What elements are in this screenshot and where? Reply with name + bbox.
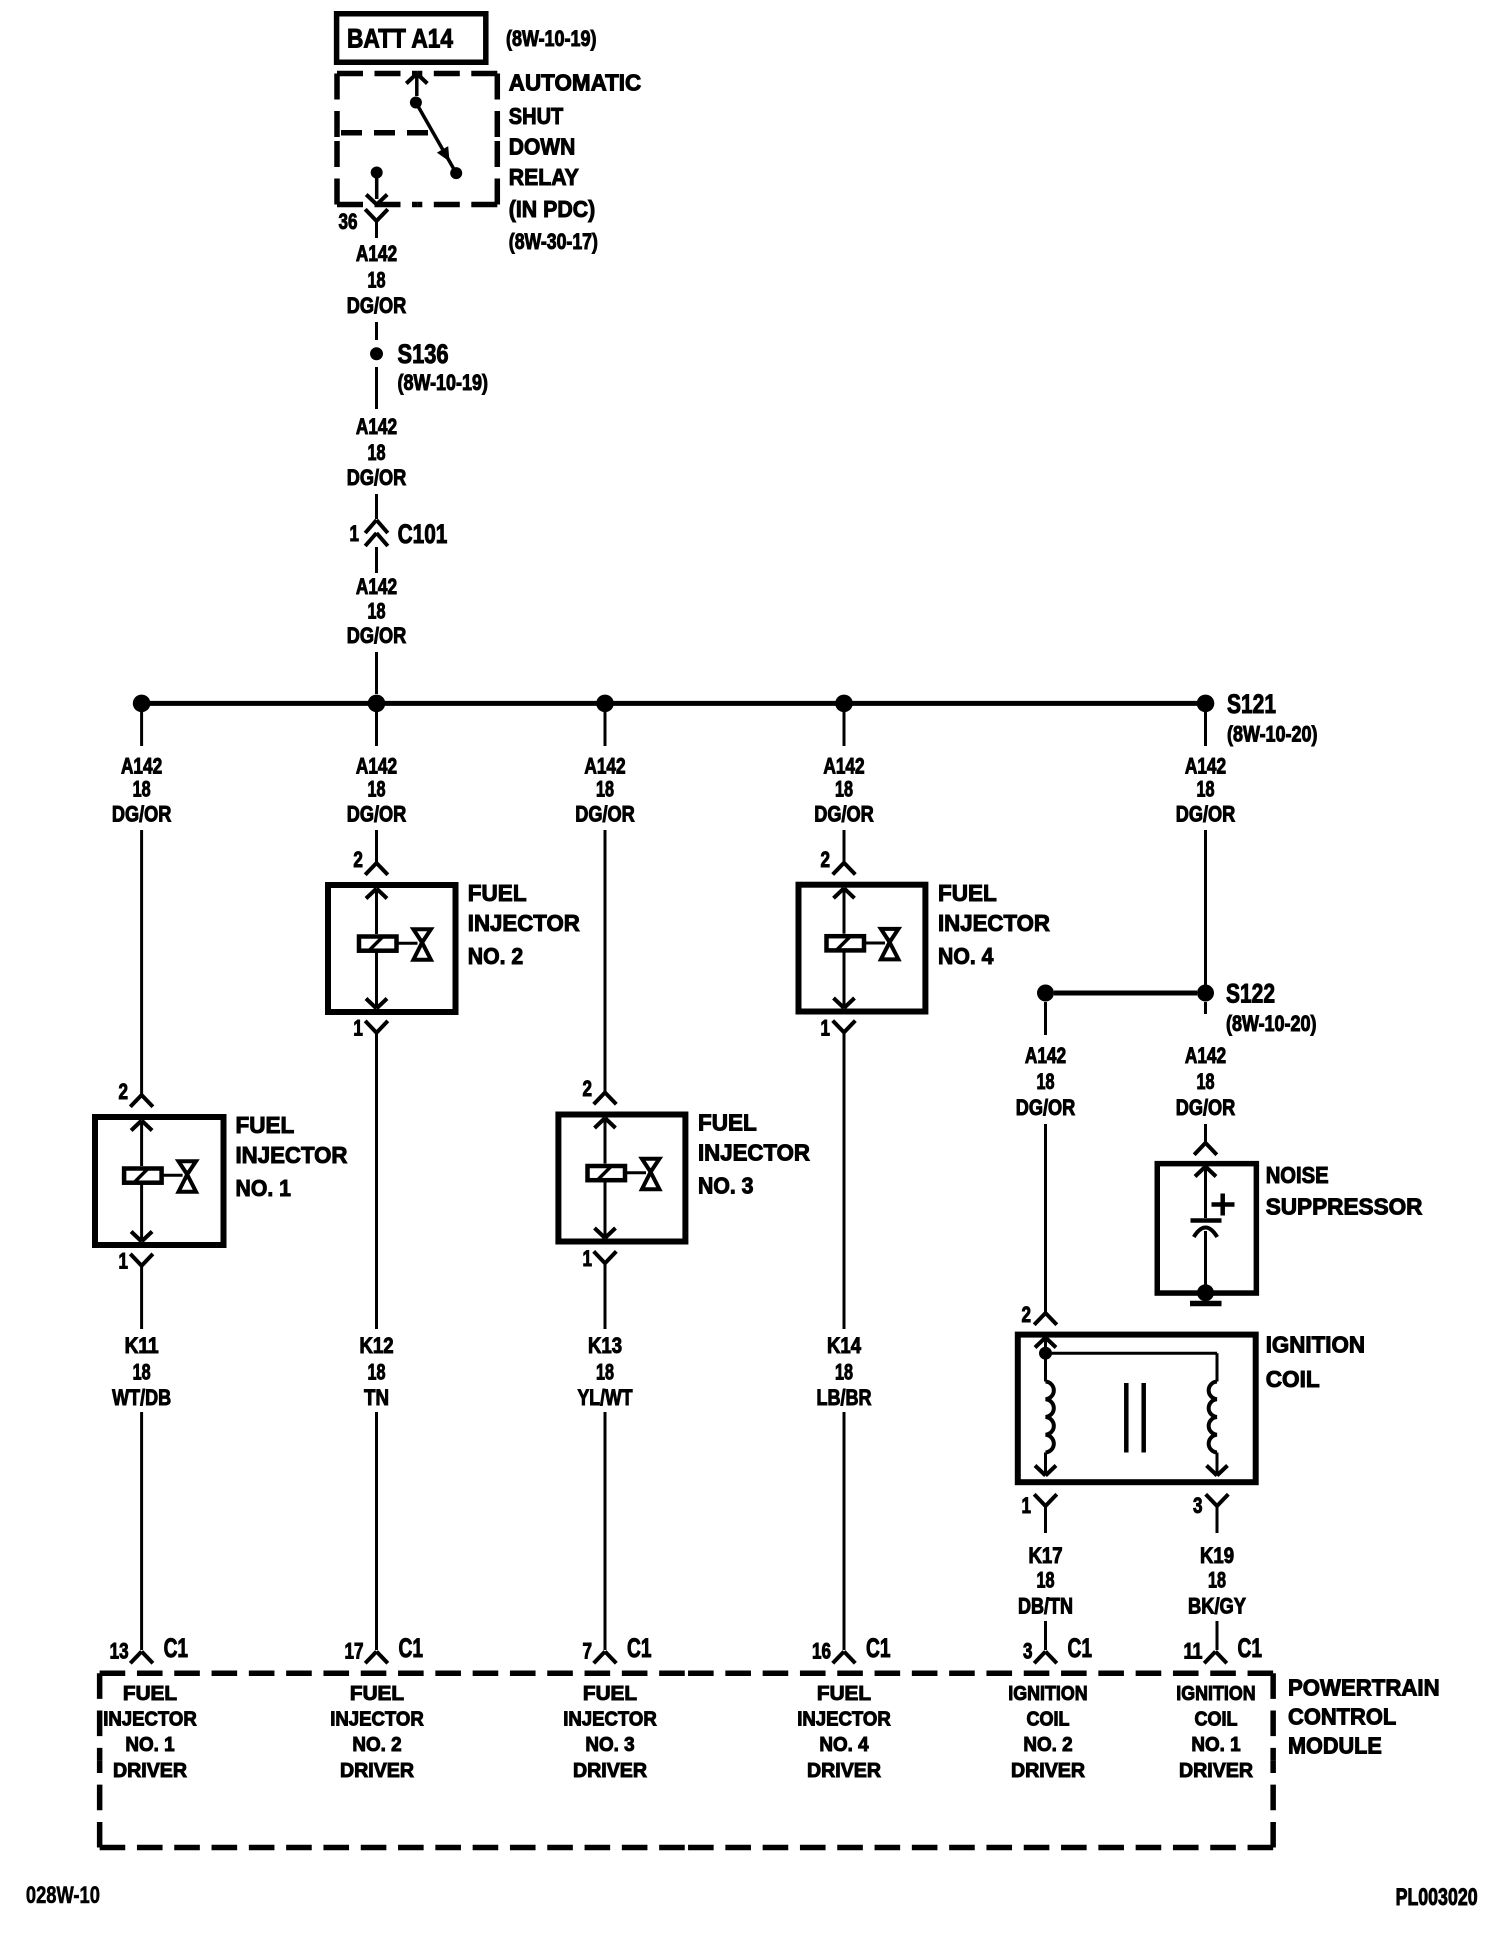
- svg-text:SUPPRESSOR: SUPPRESSOR: [1266, 1194, 1423, 1220]
- svg-text:S136: S136: [398, 339, 449, 369]
- svg-text:(8W-10-20): (8W-10-20): [1226, 1011, 1317, 1036]
- pin 2 connector fork above fuel injector no. 1: [119, 830, 153, 1107]
- svg-text:3: 3: [1193, 1493, 1203, 1518]
- svg-text:18: 18: [596, 777, 614, 802]
- svg-text:A142: A142: [356, 574, 397, 599]
- splice node S122: [1197, 979, 1317, 1037]
- svg-text:FUEL: FUEL: [583, 1683, 637, 1705]
- svg-text:TN: TN: [364, 1385, 389, 1410]
- svg-text:A142: A142: [121, 754, 162, 779]
- svg-text:18: 18: [835, 777, 853, 802]
- wire segment K12 down to PCM connector, column 2: [375, 1412, 378, 1650]
- svg-text:K19: K19: [1200, 1543, 1234, 1568]
- svg-text:17: 17: [345, 1639, 364, 1664]
- pin 36 connector fork below relay: [339, 209, 388, 238]
- wire stub below bus, column 3: [604, 712, 607, 746]
- connector fork above noise suppressor: [1194, 1143, 1217, 1155]
- footer drawing number PL003020: [1396, 1884, 1478, 1911]
- svg-text:C1: C1: [627, 1633, 652, 1663]
- wire segment down to splice S136: [375, 322, 378, 340]
- svg-text:NOISE: NOISE: [1266, 1162, 1329, 1188]
- svg-text:C1: C1: [399, 1633, 424, 1663]
- svg-text:DB/TN: DB/TN: [1018, 1594, 1073, 1619]
- connector C1 pin 17: [345, 1633, 424, 1664]
- relay switch contact (movable arm with arrows): [406, 74, 462, 180]
- connector C1 pin 16: [812, 1633, 891, 1664]
- svg-text:18: 18: [1197, 777, 1215, 802]
- svg-text:DG/OR: DG/OR: [1176, 801, 1236, 826]
- wire stub below S122 right branch: [1204, 1002, 1207, 1014]
- svg-text:2: 2: [821, 847, 831, 872]
- svg-text:2: 2: [119, 1079, 129, 1104]
- pin 1 connector fork below ignition coil: [1022, 1493, 1057, 1533]
- svg-text:2: 2: [1022, 1302, 1032, 1327]
- svg-text:18: 18: [1037, 1568, 1055, 1593]
- svg-text:18: 18: [368, 599, 386, 624]
- svg-text:16: 16: [812, 1639, 831, 1664]
- svg-text:C1: C1: [866, 1633, 891, 1663]
- junction dot S122 left branch: [1037, 985, 1054, 1002]
- svg-text:DG/OR: DG/OR: [347, 801, 407, 826]
- svg-text:S121: S121: [1227, 689, 1276, 719]
- wire label A142 18 DG/OR (relay to S136): [347, 241, 407, 318]
- splice node S136: [370, 339, 488, 395]
- svg-text:MODULE: MODULE: [1288, 1732, 1382, 1758]
- wire segment K11 down to PCM connector, column 1: [140, 1412, 143, 1650]
- svg-text:K11: K11: [125, 1333, 159, 1358]
- svg-text:COIL: COIL: [1195, 1709, 1238, 1731]
- wire segment S121 to S122 (column 6): [1204, 830, 1207, 985]
- svg-text:POWERTRAIN: POWERTRAIN: [1288, 1675, 1440, 1701]
- svg-text:NO. 2: NO. 2: [468, 943, 523, 969]
- svg-text:DRIVER: DRIVER: [1179, 1760, 1254, 1782]
- svg-text:NO. 1: NO. 1: [236, 1175, 292, 1201]
- svg-text:DRIVER: DRIVER: [113, 1760, 188, 1782]
- svg-text:INJECTOR: INJECTOR: [330, 1709, 424, 1731]
- svg-text:A142: A142: [356, 754, 397, 779]
- relay Automatic Shut Down Relay (dashed box, in PDC): [337, 74, 497, 205]
- svg-text:CONTROL: CONTROL: [1288, 1704, 1396, 1730]
- wire label K17 18 DB/TN: [1018, 1543, 1073, 1619]
- svg-text:18: 18: [368, 777, 386, 802]
- svg-text:18: 18: [596, 1360, 614, 1385]
- svg-text:FUEL: FUEL: [236, 1112, 295, 1138]
- svg-text:DG/OR: DG/OR: [814, 801, 874, 826]
- wire segment K19 down to PCM: [1216, 1621, 1219, 1650]
- svg-text:INJECTOR: INJECTOR: [797, 1709, 891, 1731]
- wire label A142 18 DG/OR (S136 to C101): [347, 414, 407, 490]
- wire label K14 18 LB/BR column 4: [817, 1333, 872, 1410]
- wire segment below C101: [375, 547, 378, 573]
- svg-text:S122: S122: [1226, 979, 1275, 1009]
- svg-text:NO. 4: NO. 4: [819, 1734, 869, 1756]
- pin 2 connector fork above fuel injector no. 3: [583, 830, 617, 1104]
- svg-text:18: 18: [368, 268, 386, 293]
- svg-text:1: 1: [350, 521, 360, 546]
- svg-text:NO. 2: NO. 2: [1023, 1734, 1072, 1756]
- wire label A142 18 DG/OR column 6: [1176, 754, 1236, 827]
- svg-text:INJECTOR: INJECTOR: [468, 910, 580, 936]
- wire stub below bus, column 4: [843, 712, 846, 746]
- PCM driver label FUEL INJECTOR NO. 4 DRIVER: [797, 1683, 891, 1782]
- svg-text:INJECTOR: INJECTOR: [938, 910, 1050, 936]
- svg-text:IGNITION: IGNITION: [1176, 1683, 1255, 1705]
- svg-text:A142: A142: [823, 754, 864, 779]
- junction dot column 2: [368, 695, 386, 713]
- connector C1 pin 13: [110, 1633, 189, 1664]
- battery feed box BATT A14: [337, 14, 597, 63]
- pin 2 connector fork above fuel injector no. 4: [821, 830, 856, 875]
- svg-text:1: 1: [353, 1016, 363, 1041]
- splice bus wire S121 (horizontal): [139, 701, 1208, 706]
- connector C1 pin 7: [583, 1633, 652, 1664]
- wire segment down to S121 bus: [375, 652, 378, 694]
- svg-text:C1: C1: [1238, 1633, 1263, 1663]
- wire segment K13 down to PCM connector, column 3: [604, 1412, 607, 1650]
- svg-text:18: 18: [1037, 1069, 1055, 1094]
- svg-text:36: 36: [339, 209, 358, 234]
- PCM driver label IGNITION COIL NO. 2 DRIVER: [1008, 1683, 1087, 1782]
- svg-text:18: 18: [368, 440, 386, 465]
- svg-text:INJECTOR: INJECTOR: [236, 1142, 348, 1168]
- wire label K11 18 WT/DB column 1: [112, 1333, 171, 1410]
- splice wire S122 horizontal: [1054, 991, 1197, 996]
- powertrain control module (dashed box): [100, 1673, 1440, 1847]
- svg-text:(8W-10-19): (8W-10-19): [398, 370, 489, 395]
- svg-text:FUEL: FUEL: [468, 880, 527, 906]
- svg-text:DG/OR: DG/OR: [112, 801, 172, 826]
- svg-text:1: 1: [1022, 1493, 1032, 1518]
- svg-text:FUEL: FUEL: [350, 1683, 404, 1705]
- noise suppressor (capacitor) box: [1157, 1162, 1423, 1293]
- wire segment down to ignition coil: [1044, 1124, 1047, 1313]
- svg-text:K12: K12: [360, 1333, 394, 1358]
- svg-text:FUEL: FUEL: [123, 1683, 177, 1705]
- junction dot column 4: [835, 695, 853, 713]
- svg-text:DG/OR: DG/OR: [347, 293, 407, 318]
- svg-text:C101: C101: [398, 519, 448, 549]
- svg-text:DG/OR: DG/OR: [1176, 1095, 1236, 1120]
- svg-text:NO. 4: NO. 4: [938, 943, 994, 969]
- svg-text:INJECTOR: INJECTOR: [563, 1709, 657, 1731]
- svg-text:(8W-10-19): (8W-10-19): [506, 26, 597, 51]
- junction dot column 3: [596, 695, 614, 713]
- wire segment below S136: [375, 367, 378, 409]
- svg-text:DRIVER: DRIVER: [340, 1760, 415, 1782]
- wire label A142 18 DG/OR column 3: [575, 754, 635, 827]
- svg-text:(8W-10-20): (8W-10-20): [1227, 722, 1318, 747]
- connector C1 pin 3: [1023, 1633, 1092, 1664]
- svg-text:IGNITION: IGNITION: [1266, 1332, 1365, 1358]
- svg-text:18: 18: [1208, 1568, 1226, 1593]
- svg-text:DG/OR: DG/OR: [575, 801, 635, 826]
- svg-text:FUEL: FUEL: [817, 1683, 871, 1705]
- svg-text:WT/DB: WT/DB: [112, 1385, 171, 1410]
- svg-text:7: 7: [583, 1639, 593, 1664]
- fuel injector NO. 2: [328, 880, 580, 1012]
- svg-text:2: 2: [583, 1076, 593, 1101]
- svg-text:INJECTOR: INJECTOR: [103, 1709, 197, 1731]
- svg-text:NO. 3: NO. 3: [585, 1734, 634, 1756]
- ground symbol at noise suppressor: [1190, 1284, 1222, 1303]
- wire label A142 18 DG/OR (S122 to noise suppressor): [1176, 1043, 1236, 1120]
- svg-text:K14: K14: [827, 1333, 862, 1358]
- svg-text:18: 18: [1197, 1069, 1215, 1094]
- svg-text:FUEL: FUEL: [938, 880, 997, 906]
- svg-text:A142: A142: [1185, 1043, 1226, 1068]
- svg-text:NO. 3: NO. 3: [698, 1173, 753, 1199]
- svg-text:1: 1: [119, 1249, 129, 1274]
- PCM driver label FUEL INJECTOR NO. 3 DRIVER: [563, 1683, 657, 1782]
- svg-text:A142: A142: [1025, 1043, 1066, 1068]
- wire label A142 18 DG/OR column 2: [347, 754, 407, 827]
- svg-text:FUEL: FUEL: [698, 1110, 757, 1136]
- PCM driver label IGNITION COIL NO. 1 DRIVER: [1176, 1683, 1255, 1782]
- svg-text:DG/OR: DG/OR: [1016, 1095, 1076, 1120]
- svg-text:DOWN: DOWN: [509, 134, 576, 160]
- fuel injector NO. 1: [95, 1112, 348, 1245]
- PCM driver label FUEL INJECTOR NO. 2 DRIVER: [330, 1683, 424, 1782]
- svg-text:C1: C1: [164, 1633, 189, 1663]
- wire segment K17 down to PCM: [1044, 1621, 1047, 1650]
- svg-text:YL/WT: YL/WT: [578, 1385, 633, 1410]
- svg-text:SHUT: SHUT: [509, 103, 564, 129]
- svg-text:COIL: COIL: [1266, 1366, 1320, 1392]
- PCM driver label FUEL INJECTOR NO. 1 DRIVER: [103, 1683, 197, 1782]
- ignition coil: [1018, 1332, 1365, 1483]
- relay name label AUTOMATIC SHUT DOWN RELAY (IN PDC) (8W-30-17): [509, 70, 641, 254]
- connector C1 pin 11: [1184, 1633, 1263, 1664]
- svg-text:IGNITION: IGNITION: [1008, 1683, 1087, 1705]
- svg-text:AUTOMATIC: AUTOMATIC: [509, 70, 641, 96]
- wire label K12 18 TN column 2: [360, 1333, 394, 1410]
- pin 3 connector fork below ignition coil: [1193, 1493, 1228, 1533]
- wire segment K14 down to PCM connector, column 4: [843, 1412, 846, 1650]
- wire stub below S122 left branch: [1044, 1002, 1047, 1035]
- svg-text:1: 1: [821, 1016, 831, 1041]
- svg-text:2: 2: [353, 847, 363, 872]
- wire label K13 18 YL/WT column 3: [578, 1333, 633, 1410]
- svg-text:13: 13: [110, 1639, 129, 1664]
- relay coil-side terminal with arrow to pin 36: [366, 167, 387, 205]
- pin 1 connector fork below fuel injector no. 1: [119, 1249, 153, 1330]
- wire label K19 18 BK/GY: [1188, 1543, 1246, 1619]
- wire label A142 18 DG/OR column 1: [112, 754, 172, 827]
- svg-text:C1: C1: [1068, 1633, 1093, 1663]
- svg-text:18: 18: [133, 777, 151, 802]
- wire stub below bus, column 1: [140, 712, 143, 746]
- pin 2 connector fork above ignition coil: [1022, 1302, 1057, 1327]
- wire stub below bus, column 6: [1204, 712, 1207, 746]
- svg-text:DRIVER: DRIVER: [1011, 1760, 1086, 1782]
- pin 1 connector fork below fuel injector no. 3: [583, 1246, 617, 1329]
- svg-text:(8W-30-17): (8W-30-17): [509, 229, 598, 254]
- svg-text:3: 3: [1023, 1639, 1033, 1664]
- pin 1 connector fork below fuel injector no. 4: [821, 1016, 856, 1330]
- junction dot column 1: [133, 695, 151, 713]
- svg-text:18: 18: [835, 1360, 853, 1385]
- wire segment down to noise suppressor: [1204, 1124, 1207, 1143]
- wire label A142 18 DG/OR (S122 to ignition coil): [1016, 1043, 1076, 1120]
- svg-text:1: 1: [583, 1246, 593, 1271]
- svg-text:DRIVER: DRIVER: [807, 1760, 882, 1782]
- svg-text:LB/BR: LB/BR: [817, 1385, 872, 1410]
- wire segment down to connector C101: [375, 494, 378, 519]
- svg-text:(IN PDC): (IN PDC): [509, 196, 595, 222]
- svg-text:K13: K13: [588, 1333, 622, 1358]
- svg-text:PL003020: PL003020: [1396, 1884, 1478, 1911]
- svg-text:NO. 1: NO. 1: [1191, 1734, 1240, 1756]
- wire label A142 18 DG/OR column 4: [814, 754, 874, 827]
- splice node S121: [1197, 689, 1318, 747]
- wire stub below bus, column 2: [375, 712, 378, 746]
- svg-text:028W-10: 028W-10: [26, 1882, 100, 1909]
- svg-text:18: 18: [368, 1360, 386, 1385]
- svg-text:BK/GY: BK/GY: [1188, 1594, 1246, 1619]
- svg-text:A142: A142: [1185, 754, 1226, 779]
- svg-text:INJECTOR: INJECTOR: [698, 1140, 810, 1166]
- fuel injector NO. 3: [558, 1110, 810, 1242]
- svg-text:DRIVER: DRIVER: [573, 1760, 648, 1782]
- svg-text:DG/OR: DG/OR: [347, 465, 407, 490]
- svg-text:A142: A142: [584, 754, 625, 779]
- svg-text:NO. 2: NO. 2: [352, 1734, 401, 1756]
- svg-text:K17: K17: [1029, 1543, 1063, 1568]
- pin 2 connector fork above fuel injector no. 2: [353, 830, 387, 875]
- svg-text:NO. 1: NO. 1: [125, 1734, 174, 1756]
- connector C101 pin 1 (inline double chevron): [350, 519, 448, 549]
- svg-text:DG/OR: DG/OR: [347, 623, 407, 648]
- svg-text:A142: A142: [356, 241, 397, 266]
- fuel injector NO. 4: [799, 880, 1051, 1012]
- footer sheet number 028W-10: [26, 1882, 100, 1909]
- svg-text:A142: A142: [356, 414, 397, 439]
- svg-text:BATT A14: BATT A14: [347, 24, 453, 54]
- wire label A142 18 DG/OR (C101 to bus): [347, 574, 407, 648]
- pin 1 connector fork below fuel injector no. 2: [353, 1016, 387, 1330]
- svg-text:COIL: COIL: [1027, 1709, 1070, 1731]
- svg-text:18: 18: [133, 1360, 151, 1385]
- svg-text:11: 11: [1184, 1639, 1203, 1664]
- svg-text:RELAY: RELAY: [509, 164, 579, 190]
